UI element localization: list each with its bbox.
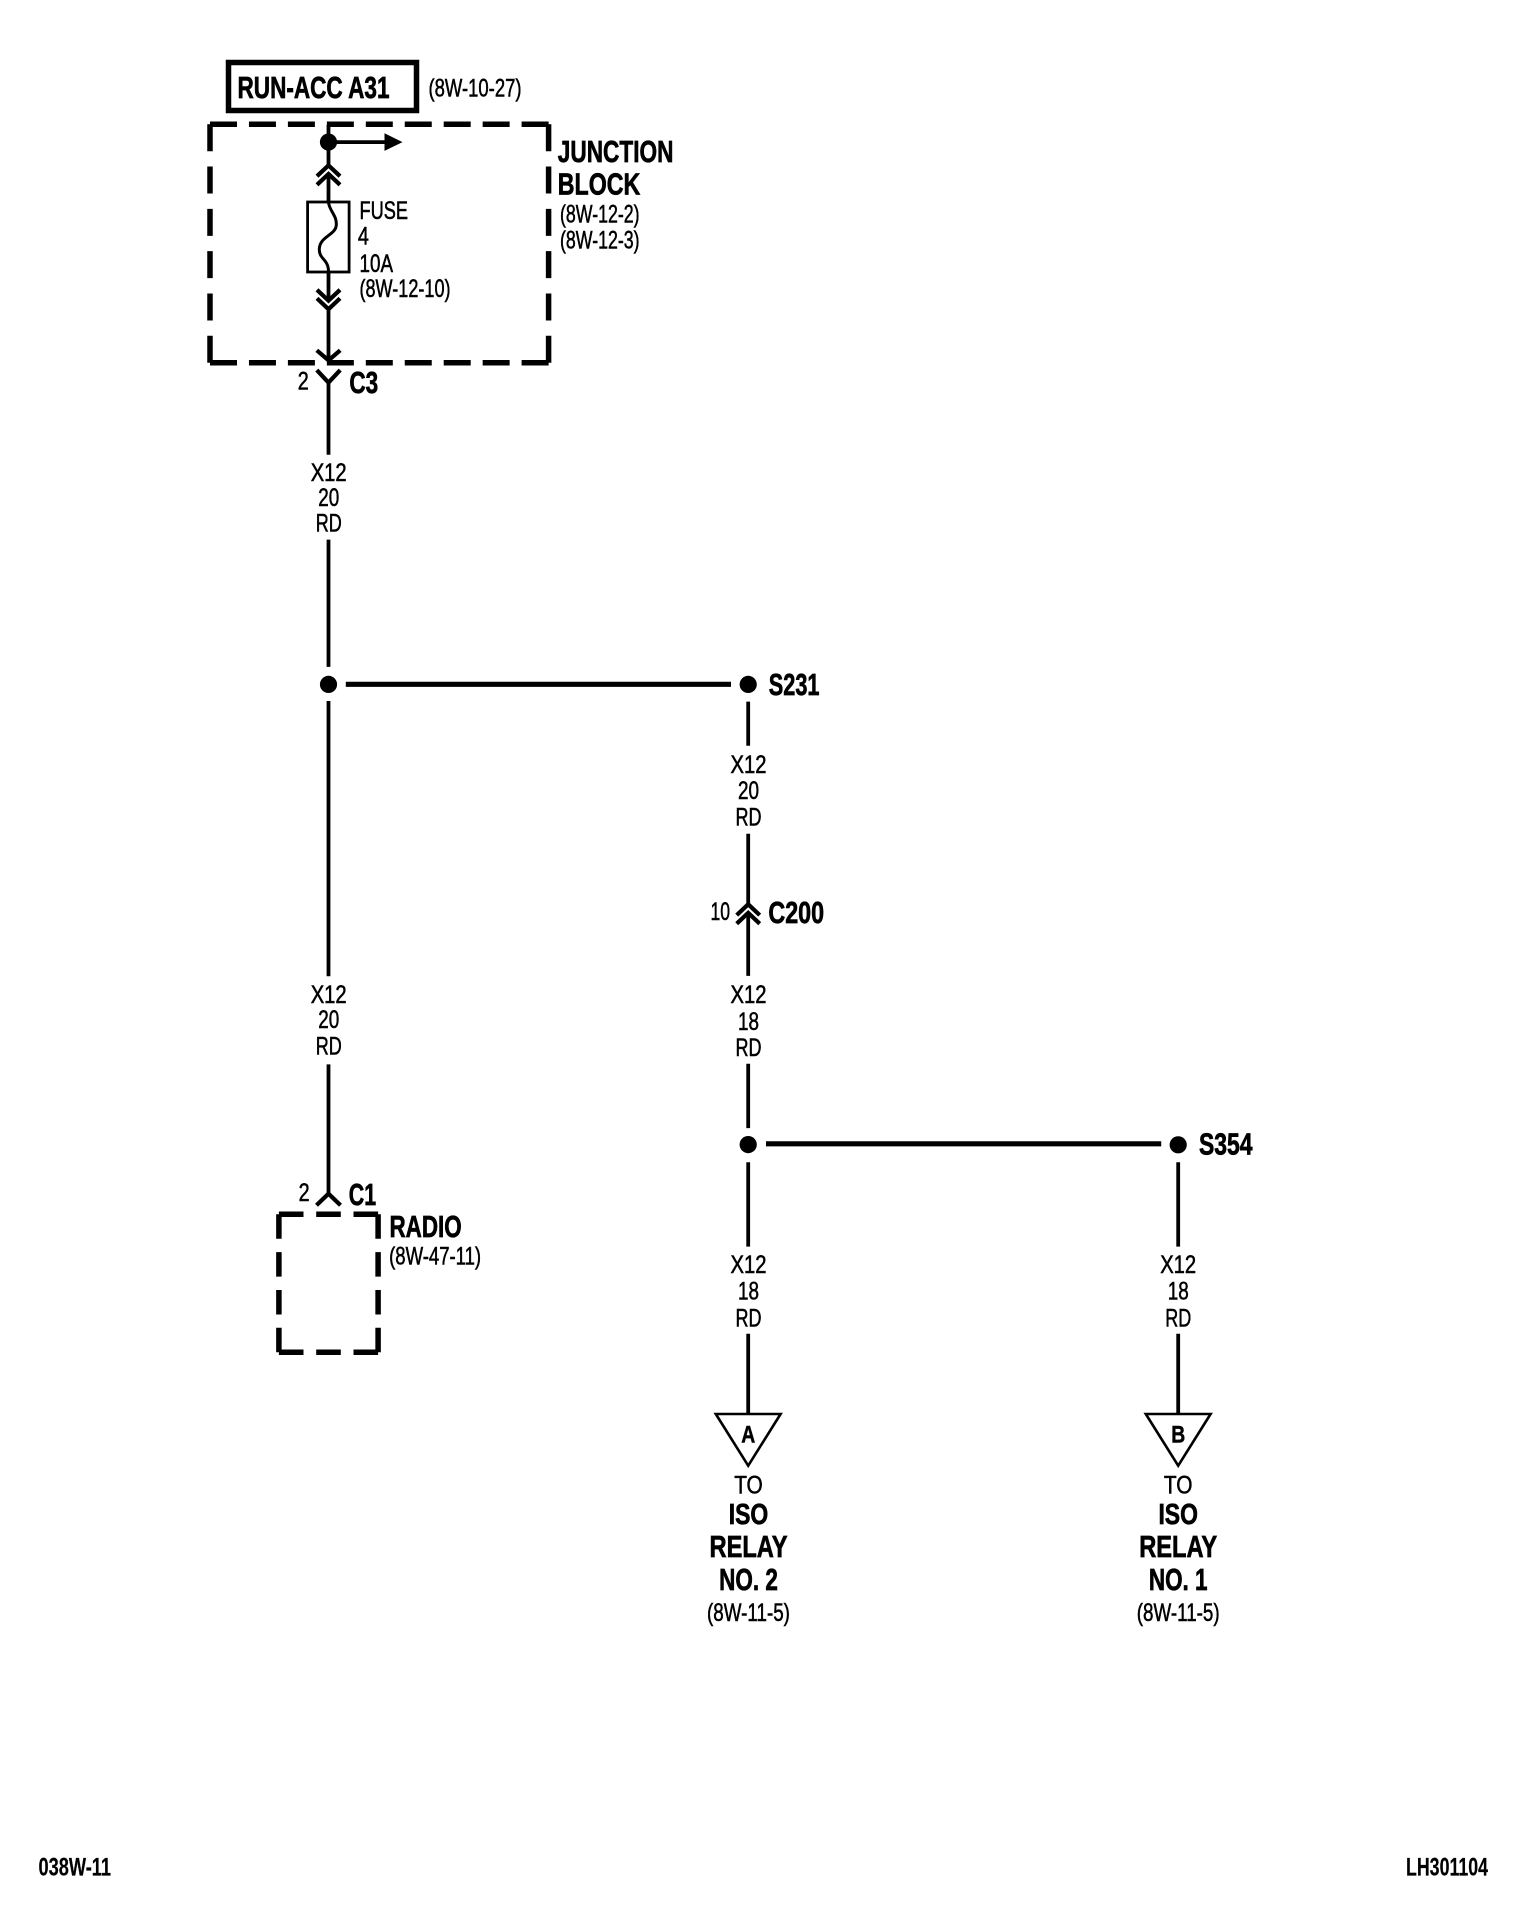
- junction block dashed box: [210, 124, 549, 363]
- svg-text:ISO: ISO: [729, 1499, 769, 1531]
- svg-text:(8W-12-2): (8W-12-2): [560, 201, 640, 229]
- destination label A: [707, 1472, 790, 1627]
- wire label X12 20 RD (right upper): [731, 751, 767, 831]
- svg-text:18: 18: [738, 1008, 759, 1036]
- fuse 4 10A: [308, 202, 350, 272]
- destination label B: [1137, 1472, 1220, 1627]
- svg-text:4: 4: [358, 223, 369, 251]
- splice S231 dot: [740, 676, 757, 693]
- wire S231 down: [746, 702, 750, 746]
- svg-text:2: 2: [299, 1179, 310, 1207]
- svg-text:LH301104: LH301104: [1406, 1853, 1488, 1881]
- svg-text:TO: TO: [734, 1472, 763, 1500]
- svg-text:RUN-ACC A31: RUN-ACC A31: [238, 70, 390, 105]
- connector chevrons below fuse: [317, 290, 340, 309]
- splice S354 dot: [1170, 1136, 1187, 1153]
- node splice dot in junction block: [320, 134, 337, 151]
- svg-text:X12: X12: [731, 751, 767, 779]
- wire label X12 20 RD (lower left): [311, 981, 347, 1061]
- svg-text:X12: X12: [311, 981, 347, 1009]
- svg-text:18: 18: [1168, 1278, 1189, 1306]
- svg-text:RADIO: RADIO: [390, 1209, 462, 1244]
- svg-text:20: 20: [318, 1006, 339, 1034]
- svg-text:(8W-47-11): (8W-47-11): [389, 1243, 481, 1271]
- svg-text:10: 10: [711, 898, 731, 926]
- wire label X12 18 RD (right mid): [731, 981, 767, 1062]
- svg-text:NO. 1: NO. 1: [1149, 1562, 1208, 1597]
- svg-text:RD: RD: [1165, 1304, 1191, 1332]
- svg-text:18: 18: [738, 1278, 759, 1306]
- wire bus to S354: [766, 1141, 1161, 1146]
- radio dashed box: [279, 1214, 378, 1352]
- svg-text:(8W-12-3): (8W-12-3): [560, 227, 640, 255]
- off-page triangle B: [1146, 1414, 1211, 1466]
- wire C3 to splice: [327, 540, 331, 667]
- svg-text:20: 20: [738, 777, 759, 805]
- svg-text:X12: X12: [311, 459, 347, 487]
- wire S354 to triangle B: [1176, 1162, 1180, 1246]
- svg-text:RD: RD: [736, 1304, 762, 1332]
- wire arrow to other circuits: [329, 133, 403, 151]
- radio label: [389, 1209, 481, 1270]
- svg-text:NO. 2: NO. 2: [719, 1562, 778, 1597]
- svg-text:X12: X12: [1160, 1251, 1196, 1279]
- svg-text:2: 2: [298, 367, 309, 395]
- svg-text:RD: RD: [736, 1034, 762, 1062]
- svg-text:RD: RD: [316, 1033, 342, 1061]
- wire to junction block exit arrow: [317, 309, 340, 361]
- connector chevrons inside junction block: [317, 165, 340, 184]
- wire below C200: [746, 913, 750, 976]
- connector C200 chevrons: [737, 904, 760, 923]
- svg-text:(8W-12-10): (8W-12-10): [360, 275, 451, 303]
- svg-text:TO: TO: [1164, 1472, 1193, 1500]
- svg-text:C1: C1: [349, 1177, 376, 1212]
- svg-text:X12: X12: [731, 1251, 767, 1279]
- svg-text:BLOCK: BLOCK: [558, 167, 641, 202]
- wire fuse to lower chevrons: [327, 272, 331, 301]
- svg-text:C3: C3: [349, 365, 378, 400]
- connector C3 symbol: [317, 370, 340, 455]
- junction block label: [558, 134, 674, 255]
- svg-text:(8W-10-27): (8W-10-27): [429, 75, 522, 103]
- svg-text:038W-11: 038W-11: [39, 1853, 112, 1881]
- power feed box RUN-ACC A31: [229, 63, 417, 111]
- svg-text:RD: RD: [316, 510, 342, 538]
- svg-text:10A: 10A: [360, 250, 394, 278]
- svg-text:S354: S354: [1199, 1127, 1253, 1162]
- svg-text:JUNCTION: JUNCTION: [558, 134, 674, 169]
- wire label X12 18 RD (A branch): [731, 1251, 767, 1333]
- fuse value labels: [358, 197, 451, 303]
- wire label X12 18 RD (B branch): [1160, 1251, 1196, 1333]
- svg-text:B: B: [1171, 1422, 1185, 1449]
- wire to triangle A: [746, 1162, 750, 1246]
- wire bus to S231: [346, 682, 731, 687]
- node splice dot lower: [740, 1136, 757, 1153]
- wire to connector C1: [327, 1064, 331, 1193]
- svg-text:20: 20: [318, 484, 339, 512]
- svg-text:X12: X12: [731, 981, 767, 1009]
- wire below left splice: [327, 701, 331, 976]
- svg-text:S231: S231: [769, 667, 820, 702]
- svg-text:(8W-11-5): (8W-11-5): [707, 1599, 790, 1627]
- svg-text:ISO: ISO: [1158, 1499, 1198, 1531]
- svg-text:RELAY: RELAY: [1139, 1529, 1217, 1564]
- off-page triangle A: [716, 1414, 781, 1466]
- svg-text:RELAY: RELAY: [710, 1529, 788, 1564]
- wire to lower splice: [746, 1064, 750, 1128]
- svg-text:A: A: [741, 1422, 755, 1449]
- wire to C200: [746, 834, 750, 905]
- node splice dot left: [320, 676, 337, 693]
- svg-text:FUSE: FUSE: [360, 197, 409, 225]
- wire label X12 20 RD (upper left): [311, 459, 347, 538]
- wire chevron to fuse: [327, 174, 331, 203]
- svg-text:(8W-11-5): (8W-11-5): [1137, 1599, 1220, 1627]
- connector C1 symbol: [317, 1194, 341, 1206]
- wire from RUN-ACC A31 into junction block: [327, 125, 331, 165]
- svg-text:RD: RD: [736, 803, 762, 831]
- svg-text:C200: C200: [768, 895, 824, 930]
